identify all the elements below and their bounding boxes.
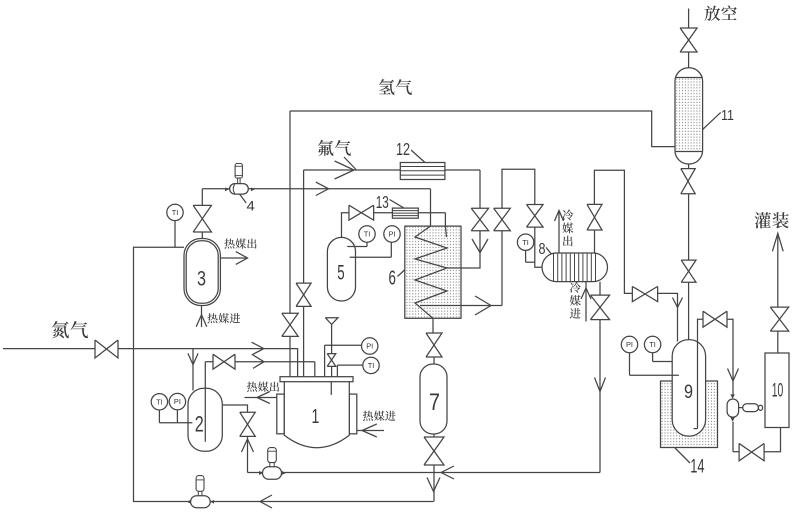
svg-text:PI: PI: [366, 342, 373, 351]
svg-text:1: 1: [312, 406, 320, 428]
svg-text:TI: TI: [368, 361, 375, 370]
svg-text:6: 6: [389, 267, 396, 289]
svg-text:8: 8: [539, 241, 546, 258]
svg-text:13: 13: [376, 192, 389, 212]
svg-text:11: 11: [721, 107, 734, 124]
svg-text:12: 12: [396, 139, 410, 159]
svg-text:PI: PI: [389, 230, 396, 239]
svg-text:14: 14: [690, 457, 705, 478]
svg-text:4: 4: [247, 198, 256, 213]
svg-text:PI: PI: [626, 340, 633, 349]
svg-text:TI: TI: [156, 397, 163, 406]
svg-text:TI: TI: [172, 208, 179, 217]
svg-text:TI: TI: [649, 340, 656, 349]
svg-text:10: 10: [772, 379, 784, 401]
svg-text:TI: TI: [364, 230, 371, 239]
svg-text:2: 2: [195, 412, 204, 437]
svg-text:3: 3: [197, 267, 206, 291]
svg-text:PI: PI: [174, 397, 181, 406]
svg-text:5: 5: [337, 261, 344, 285]
svg-text:9: 9: [684, 382, 693, 403]
svg-text:7: 7: [429, 389, 440, 416]
svg-text:TI: TI: [522, 238, 529, 247]
